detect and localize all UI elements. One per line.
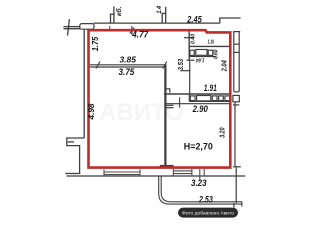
svg-text:3.53: 3.53 <box>176 58 185 70</box>
svg-text:2.53: 2.53 <box>198 194 213 204</box>
svg-text:АВИТО: АВИТО <box>99 99 184 126</box>
svg-text:1.4: 1.4 <box>157 5 163 13</box>
svg-text:2.90: 2.90 <box>192 104 209 115</box>
svg-text:Н=2,70: Н=2,70 <box>184 142 213 153</box>
svg-text:1.10: 1.10 <box>208 40 215 46</box>
svg-text:2.45: 2.45 <box>186 15 202 25</box>
svg-text:Фото добавлено Авито: Фото добавлено Авито <box>182 211 234 217</box>
svg-text:1.91: 1.91 <box>204 83 217 93</box>
svg-text:4.77: 4.77 <box>131 29 148 39</box>
svg-text:3.23: 3.23 <box>191 178 207 189</box>
svg-text:3.85: 3.85 <box>120 54 137 64</box>
svg-text:3.20: 3.20 <box>219 127 226 137</box>
svg-text:0.60: 0.60 <box>213 49 219 59</box>
svg-text:1.75: 1.75 <box>91 36 100 51</box>
svg-text:3.75: 3.75 <box>119 66 135 77</box>
svg-text:кб.: кб. <box>115 6 123 16</box>
svg-text:0.40: 0.40 <box>190 33 196 44</box>
svg-text:4.98: 4.98 <box>87 103 96 121</box>
svg-text:1.64: 1.64 <box>195 57 204 63</box>
svg-text:2.04: 2.04 <box>220 60 229 72</box>
